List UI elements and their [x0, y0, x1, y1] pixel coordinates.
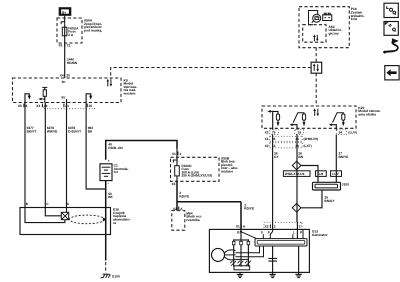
- wire 1440 RD/BN: [65, 37, 78, 79]
- generator ground 3: [295, 272, 301, 277]
- option box 2H0/LXT/LU9: [283, 171, 310, 177]
- wire 1 into regulator: [296, 211, 298, 238]
- G13 label: [312, 230, 328, 237]
- svg-text:X2: X2: [265, 225, 269, 229]
- K9 output driver pin 25: [86, 94, 92, 103]
- svg-text:LU9: LU9: [317, 172, 323, 176]
- pin X3: [172, 182, 178, 186]
- K9 5V reference pin 21: [61, 95, 66, 102]
- K20 connector row X2 75/19/94: [265, 130, 357, 135]
- branch from splice to LU9: [301, 166, 318, 183]
- serial data bus dashed horizontal to K9: [111, 68, 311, 79]
- svg-text:RD/B–GN: RD/B–GN: [108, 146, 123, 150]
- underhood fuse block X50A (dashed box): [57, 18, 82, 43]
- svg-text:L: L: [293, 231, 295, 235]
- serial data arrows in K9: [107, 79, 113, 87]
- svg-text:G100: G100: [112, 274, 120, 278]
- twisted-return arrow icon: [383, 38, 399, 53]
- pin label 21: [64, 104, 69, 108]
- serial data bus dashed: P16 down: [315, 48, 317, 63]
- wire 26 BN: [297, 134, 304, 222]
- body control module K9 (dashed box): [13, 78, 122, 103]
- svg-text:giczny: giczny: [329, 31, 339, 35]
- option box LU9: [316, 171, 327, 177]
- svg-text:X1: X1: [265, 137, 269, 141]
- diagonal B to regulator: [241, 232, 257, 239]
- generator terminal letters: [237, 231, 303, 235]
- L P ticks into regulator: [292, 234, 294, 238]
- junction dots: [233, 239, 249, 266]
- hall sensor element (box with X): [61, 212, 68, 219]
- svg-text:J100: J100: [342, 182, 349, 186]
- serial data arrows in K20: [313, 108, 319, 116]
- regulator output to ground: [298, 246, 300, 272]
- svg-text:X1: X1: [236, 225, 240, 229]
- wire 6376 WH/VE: [45, 103, 57, 208]
- M64 label: [186, 211, 202, 222]
- generator ground 2: [269, 272, 275, 277]
- battery current sensor E16 (solid box): [20, 208, 111, 235]
- serial data link box: [311, 62, 322, 73]
- svg-text:1: 1: [299, 225, 301, 229]
- connector terminal hook in X50A: [61, 22, 64, 25]
- ground G100: [101, 274, 120, 278]
- svg-text:20: 20: [66, 73, 70, 77]
- svg-text:D-BU/VT: D-BU/VT: [68, 129, 81, 133]
- svg-text:94: 94: [339, 131, 343, 135]
- svg-text:21: 21: [65, 104, 69, 108]
- K20 connector row X1 26/46: [265, 136, 318, 141]
- pin label 25: [87, 104, 92, 108]
- rectifier top bus: [234, 239, 249, 241]
- pin X1 1 at X50B: [172, 151, 182, 156]
- X50A label: [84, 19, 102, 33]
- svg-text:Generator: Generator: [312, 233, 328, 237]
- wire 2 into generator F: [272, 222, 274, 229]
- wire 27 BN/YE: [336, 134, 348, 182]
- svg-text:X3: X3: [172, 182, 176, 186]
- generator connector dotted strip: [264, 222, 302, 228]
- battery C1 label: [114, 164, 129, 175]
- left arrow on pin X4-19: [38, 98, 44, 101]
- K20 driver pin 19/46/30: [290, 113, 306, 130]
- svg-text:rusznika: rusznika: [186, 218, 200, 222]
- charge indicator telltale: [309, 11, 321, 25]
- page icon 2: [384, 22, 398, 36]
- pin 1 at generator: [298, 222, 301, 228]
- svg-text:2: 2: [274, 225, 276, 229]
- S F ticks into regulator: [262, 234, 264, 238]
- A50 label: [329, 25, 343, 36]
- svg-text:X2: X2: [265, 131, 269, 135]
- svg-text:B+: B+: [62, 10, 66, 14]
- svg-text:X1: X1: [172, 152, 176, 156]
- stator phase lead: [236, 258, 249, 260]
- battery negative cable 50 BK: [106, 181, 114, 235]
- K9 label: [123, 78, 138, 95]
- svg-text:(2H0/LV9): (2H0/LV9): [304, 137, 318, 141]
- svg-text:+: +: [108, 159, 110, 163]
- K20 connector row X2 13/30: [265, 143, 312, 148]
- svg-text:WH/VE: WH/VE: [47, 129, 57, 133]
- svg-text:B+: B+: [62, 80, 66, 84]
- svg-text:RD/BN: RD/BN: [67, 61, 78, 65]
- svg-text:2H0/LXT/LU9: 2H0/LXT/LU9: [285, 172, 305, 176]
- svg-text:1: 1: [179, 152, 181, 156]
- svg-text:BK/VT: BK/VT: [27, 129, 37, 133]
- wire from junction down to generator B: [240, 202, 242, 230]
- wire B to sensor: [25, 208, 65, 223]
- svg-text:(LUV): (LUV): [348, 131, 357, 135]
- K9 pull-up resistor on pin X4-19: [42, 87, 47, 102]
- svg-text:BN/YE: BN/YE: [339, 155, 349, 159]
- pin label X4 19: [36, 104, 47, 108]
- svg-text:2 A: 2 A: [68, 33, 74, 37]
- generator G13 (solid box): [209, 229, 309, 272]
- svg-text:RD/YE: RD/YE: [244, 207, 254, 211]
- capacitor branch from regulator: [268, 246, 277, 272]
- stator phase 1: [233, 240, 235, 266]
- svg-text:T2: T2: [67, 43, 71, 47]
- voltage regulator bar: [255, 239, 307, 246]
- wire 984 BK: [86, 103, 106, 189]
- sensed cable ellipse: [69, 215, 106, 224]
- svg-text:F: F: [268, 231, 270, 235]
- engine control module K20 (dashed box): [262, 106, 356, 128]
- instrument cluster P16 (dashed box): [299, 7, 349, 48]
- B wire into rectifier: [240, 229, 242, 266]
- wire 6377 BK/VT: [25, 103, 36, 208]
- svg-text:X4: X4: [36, 104, 40, 108]
- wire 29 BN/GY from J100: [301, 190, 335, 208]
- P16 label: [350, 7, 365, 21]
- splice diamond S1: [292, 161, 301, 170]
- svg-text:LUV: LUV: [332, 172, 339, 176]
- back arrow icon: [385, 66, 399, 80]
- svg-text:ra: ra: [113, 221, 116, 225]
- rotor field winding circle: [212, 248, 225, 261]
- slip ring fan: [224, 250, 235, 260]
- K9 output driver pin X5-6: [25, 94, 31, 103]
- junction to generator branch: [177, 201, 241, 203]
- svg-text:(LXT): (LXT): [304, 144, 312, 148]
- svg-text:250 A (2H0/LXT/LV9): 250 A (2H0/LXT/LV9): [182, 174, 213, 178]
- wire A to sensor: [66, 208, 68, 213]
- connector X4 dotted strip: [44, 107, 95, 109]
- svg-text:ków: ków: [351, 17, 358, 21]
- svg-text:S: S: [261, 231, 263, 235]
- wire C to sensor: [45, 208, 61, 216]
- K20 driver pin 75: [267, 110, 279, 130]
- svg-text:ania silnika: ania silnika: [358, 113, 376, 117]
- pins F2 / T2: [59, 43, 71, 47]
- serial data bus dashed: link box to K20: [315, 73, 317, 106]
- svg-text:25: 25: [89, 104, 93, 108]
- logic unit A50 (dashed box): [303, 25, 326, 43]
- page icon 1: [384, 3, 398, 17]
- wire 2 RD/YE to starter: [177, 181, 189, 210]
- serial data arrows in A50: [313, 35, 319, 42]
- battery feed B+ icon: [59, 7, 72, 16]
- svg-text:BN: BN: [298, 155, 303, 159]
- pin X4 20: [60, 73, 70, 77]
- fuse F60UD: [175, 149, 212, 182]
- svg-text:X4: X4: [60, 73, 64, 77]
- svg-text:F2: F2: [59, 43, 63, 47]
- pin X1 A at generator: [236, 224, 246, 228]
- svg-text:X2: X2: [265, 144, 269, 148]
- K20 driver pin 94: [329, 113, 345, 130]
- splice diamond S2: [292, 204, 301, 213]
- E16 label: [113, 208, 131, 225]
- fuse F60UA: [62, 25, 79, 37]
- battery positive cable RD to fuse block: [106, 141, 177, 160]
- lower diodes: [230, 261, 251, 266]
- battery fuse block X50B (dashed box): [171, 157, 220, 181]
- svg-text:tor: tor: [114, 170, 119, 174]
- svg-text:RD/YE: RD/YE: [179, 194, 189, 198]
- pin X2 A at M64: [173, 207, 183, 211]
- svg-text:BK: BK: [108, 195, 113, 199]
- svg-text:19: 19: [298, 131, 302, 135]
- wire 6378 D-BU/VT: [67, 103, 82, 208]
- svg-text:mulator: mulator: [221, 170, 234, 174]
- wire from B+ to fuse box: [64, 16, 66, 22]
- brush leads: [236, 246, 260, 253]
- starter motor M64 (dashed box): [172, 211, 185, 231]
- K20 label: [358, 106, 380, 117]
- junction block J100: [313, 182, 350, 190]
- svg-text:BN/GY: BN/GY: [324, 199, 335, 203]
- battery symbol icon in cluster: [323, 13, 332, 20]
- X50B label: [221, 156, 238, 173]
- wire 26 GY: [273, 134, 280, 222]
- svg-text:woziem: woziem: [123, 92, 136, 96]
- ground cable below E16 to G100: [105, 235, 107, 274]
- pin X2 2 at generator: [265, 224, 276, 228]
- stator phase 3: [247, 240, 249, 266]
- wire 2 RD/YE branch label: [244, 203, 254, 210]
- option box LUV: [331, 171, 342, 177]
- rectifier bottom bus: [234, 266, 250, 270]
- svg-text:–: –: [107, 181, 109, 185]
- terminal hook in X50B: [173, 160, 177, 164]
- svg-text:pod maską,: pod maską,: [84, 29, 102, 33]
- battery C1: [100, 159, 112, 185]
- pin label X5 6: [18, 104, 28, 108]
- upper diodes: [232, 241, 249, 244]
- svg-text:BK: BK: [88, 129, 93, 133]
- svg-text:75: 75: [272, 131, 276, 135]
- svg-text:6: 6: [26, 104, 28, 108]
- svg-text:X5: X5: [18, 104, 22, 108]
- generator ground 1: [237, 272, 243, 277]
